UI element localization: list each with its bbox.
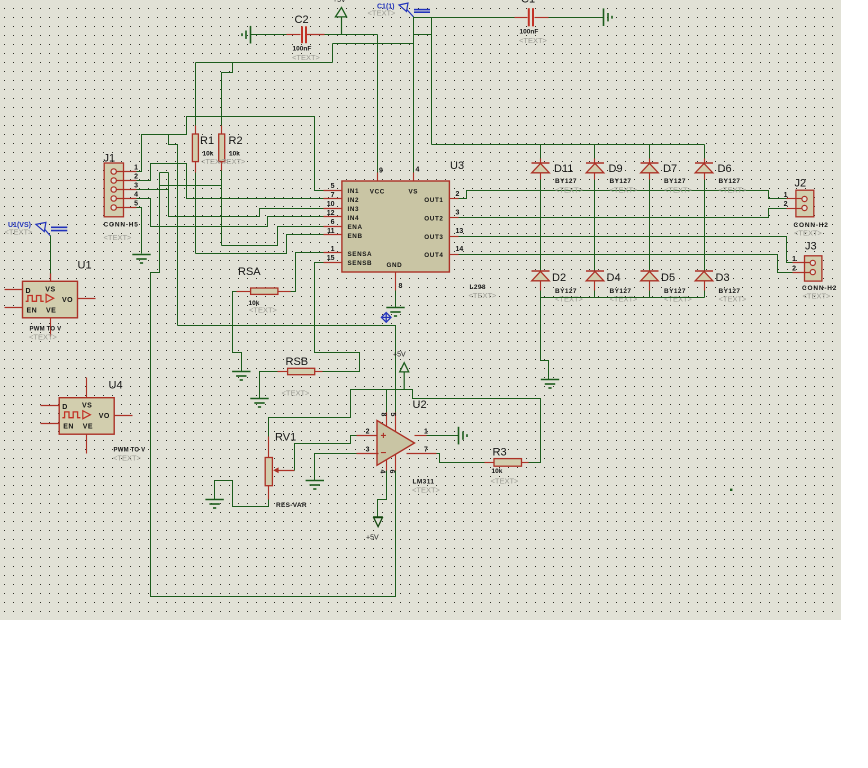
wire OUT1 to J2 pin1 xyxy=(459,191,787,199)
voltage probe U1(VS) xyxy=(36,222,67,236)
svg-text:2: 2 xyxy=(456,191,460,198)
wire R1 to U3 ENB xyxy=(196,235,324,254)
svg-text:R3: R3 xyxy=(493,447,507,459)
resistor RSB xyxy=(288,368,315,374)
svg-text:OUT3: OUT3 xyxy=(424,234,443,241)
junction dot xyxy=(730,489,732,491)
svg-text:4: 4 xyxy=(379,470,386,474)
svg-text:12: 12 xyxy=(327,210,335,217)
ground (U3 pin8) xyxy=(386,308,404,317)
connector J3 CONN-H2 xyxy=(805,256,822,281)
svg-text:EN: EN xyxy=(27,307,38,314)
wire VS probe riser to U3 pin 4 xyxy=(413,17,415,173)
wire U2 pin1 to ground xyxy=(427,435,459,437)
wire stub xyxy=(160,172,169,174)
wire xyxy=(649,291,651,298)
wire probe to U1 VS xyxy=(50,236,52,274)
svg-text:<TEXT>: <TEXT> xyxy=(218,157,247,166)
svg-text:5: 5 xyxy=(389,413,396,417)
wire R1 bottom drop xyxy=(195,173,197,254)
diode D3 BY127 xyxy=(695,270,713,272)
diode D2 BY127 xyxy=(532,270,550,272)
svg-text:J1: J1 xyxy=(104,153,116,165)
svg-text:LM311: LM311 xyxy=(413,479,435,486)
diode D4 BY127 xyxy=(586,270,604,272)
potentiometer RV1 RES-VAR xyxy=(268,437,270,458)
resistor RSA xyxy=(251,288,278,294)
svg-text:3: 3 xyxy=(134,183,138,190)
svg-text:<TEXT>: <TEXT> xyxy=(610,295,639,304)
svg-text:15: 15 xyxy=(327,255,335,262)
wire to U2 pin 8 xyxy=(386,390,388,413)
wire SENSA to RSA xyxy=(291,253,324,292)
svg-text:<TEXT>: <TEXT> xyxy=(368,9,397,18)
wire stub riser xyxy=(168,173,170,190)
svg-text:13: 13 xyxy=(456,228,464,235)
voltage probe C1(1) xyxy=(399,3,430,17)
wire RSB to ground xyxy=(260,372,278,399)
wire xyxy=(540,291,542,298)
svg-text:1: 1 xyxy=(784,192,788,199)
svg-text:VS: VS xyxy=(82,403,92,410)
ground (U2 pin1) xyxy=(459,427,468,445)
wire U2 pin3 to ground xyxy=(315,454,357,481)
svg-text:3: 3 xyxy=(366,447,370,454)
wire to U2 pin 5 xyxy=(178,326,396,413)
svg-text:BY127: BY127 xyxy=(719,178,741,185)
svg-text:6: 6 xyxy=(388,470,395,474)
wire U3 GND xyxy=(395,291,397,308)
svg-text:L298: L298 xyxy=(470,284,486,291)
ground (J1 pin5) xyxy=(132,255,150,264)
svg-text:4: 4 xyxy=(416,167,420,174)
wire xyxy=(649,145,651,159)
svg-text:9: 9 xyxy=(379,168,383,175)
svg-text:+5V: +5V xyxy=(393,352,406,359)
wire C2 to VCC pin 9 xyxy=(325,34,378,36)
wire R2 bottom drop xyxy=(221,171,223,246)
wire OUT3 to J3 pin1 xyxy=(459,237,793,263)
ground (left of C2) xyxy=(242,26,251,44)
svg-text:U4: U4 xyxy=(109,380,123,392)
wire feedback net to RV1 xyxy=(269,390,541,463)
svg-text:+5V: +5V xyxy=(366,535,379,542)
svg-text:<TEXT>: <TEXT> xyxy=(719,186,748,195)
svg-text:100nF: 100nF xyxy=(293,46,312,53)
wire J1 pin1 to U3 IN1 xyxy=(137,117,324,191)
wire J1 pin4 to U3 IN4 xyxy=(137,199,324,227)
svg-text:2: 2 xyxy=(792,266,796,273)
svg-text:+5V: +5V xyxy=(333,0,346,4)
svg-text:7: 7 xyxy=(331,192,335,199)
power flag +5V (top) xyxy=(341,17,343,35)
svg-text:BY127: BY127 xyxy=(555,178,577,185)
wire diode top rail xyxy=(432,144,705,146)
connector J2 CONN-H2 xyxy=(796,190,814,217)
svg-text:11: 11 xyxy=(327,228,335,235)
svg-text:D: D xyxy=(62,404,67,411)
svg-text:ENA: ENA xyxy=(348,224,363,231)
svg-text:SENSB: SENSB xyxy=(348,260,373,267)
svg-text:J2: J2 xyxy=(795,178,807,190)
svg-text:OUT4: OUT4 xyxy=(424,252,443,259)
svg-text:VS: VS xyxy=(45,286,55,293)
wire RV1 bottom to ground xyxy=(215,481,269,507)
op-amp U2 LM311 xyxy=(377,421,415,466)
svg-text:U2: U2 xyxy=(413,399,427,411)
ground (RSA) xyxy=(232,372,250,381)
svg-text:<TEXT>: <TEXT> xyxy=(555,186,584,195)
wire diode column xyxy=(594,180,596,271)
svg-text:CONN-H5: CONN-H5 xyxy=(104,222,139,229)
wire branch to U2 pin5 net xyxy=(169,135,178,326)
wire diode bottom rail xyxy=(541,297,705,299)
svg-text:IN2: IN2 xyxy=(348,197,360,204)
svg-text:C2: C2 xyxy=(295,14,309,26)
wire VCC riser to U3 pin 9 xyxy=(377,35,379,173)
wire xyxy=(332,44,334,63)
svg-text:<TEXT>: <TEXT> xyxy=(664,186,693,195)
svg-text:6: 6 xyxy=(331,219,335,226)
svg-text:VE: VE xyxy=(46,307,56,314)
svg-text:8: 8 xyxy=(380,413,387,417)
wire diode column xyxy=(540,180,542,271)
svg-text:EN: EN xyxy=(63,424,74,431)
IC U1 PWM TO V xyxy=(23,281,78,318)
wire R1 top xyxy=(195,63,197,126)
ground (U2 pin3) xyxy=(306,481,324,490)
svg-text:1: 1 xyxy=(331,246,335,253)
svg-text:<TEXT>: <TEXT> xyxy=(491,477,520,486)
svg-text:100nF: 100nF xyxy=(520,29,539,36)
wire VCC net to C2 xyxy=(251,34,287,36)
wire RSA to ground xyxy=(233,292,242,372)
IC U4 PWM TO V xyxy=(59,398,114,435)
wire diode column xyxy=(704,180,706,271)
origin marker (blue diamond) xyxy=(381,313,391,323)
svg-text:D2: D2 xyxy=(552,272,566,284)
svg-text:−: − xyxy=(381,448,387,459)
wire OUT4 to J3 pin2 xyxy=(459,255,793,273)
wire xyxy=(594,291,596,298)
svg-text:RV1: RV1 xyxy=(275,432,296,444)
svg-text:2: 2 xyxy=(134,174,138,181)
wire VS jog xyxy=(414,34,432,36)
svg-text:+: + xyxy=(381,431,387,442)
svg-text:BY127: BY127 xyxy=(610,178,632,185)
wire SENSB to RSB xyxy=(315,263,360,372)
ground (right of C1) xyxy=(604,8,613,26)
svg-text:U3: U3 xyxy=(450,160,464,172)
svg-text:1: 1 xyxy=(134,165,138,172)
wire U2 pin7 to R3 xyxy=(437,454,485,463)
svg-text:VCC: VCC xyxy=(370,189,385,196)
svg-text:<TEXT>: <TEXT> xyxy=(282,389,311,398)
svg-text:<TEXT>: <TEXT> xyxy=(249,306,278,315)
svg-text:SENSA: SENSA xyxy=(348,251,373,258)
ground (RV1) xyxy=(205,500,223,509)
svg-text:D: D xyxy=(26,288,31,295)
svg-text:GND: GND xyxy=(387,262,403,269)
wire RV1 wiper to U2 pin2 xyxy=(295,436,357,471)
capacitor C2 xyxy=(287,34,301,36)
svg-text:BY127: BY127 xyxy=(664,178,686,185)
svg-text:D11: D11 xyxy=(554,163,573,175)
ground (RSB) xyxy=(250,399,268,408)
svg-text:ENB: ENB xyxy=(348,233,363,240)
wire xyxy=(594,145,596,159)
wire rail to ground xyxy=(541,298,549,380)
svg-text:VE: VE xyxy=(83,424,93,431)
diode D5 BY127 xyxy=(641,270,659,272)
svg-text:8: 8 xyxy=(399,283,403,290)
resistor R3 xyxy=(485,462,495,464)
IC U3 L298 xyxy=(342,181,450,272)
svg-text:VO: VO xyxy=(99,413,110,420)
svg-text:C1: C1 xyxy=(521,0,535,6)
svg-text:RES-VAR: RES-VAR xyxy=(276,502,307,509)
svg-text:10k: 10k xyxy=(492,468,503,475)
svg-text:VO: VO xyxy=(62,297,73,304)
svg-text:J3: J3 xyxy=(805,241,817,253)
svg-text:VS: VS xyxy=(409,189,419,196)
svg-text:<TEXT>: <TEXT> xyxy=(803,292,832,301)
svg-text:7: 7 xyxy=(424,447,428,454)
wire R2 to long net xyxy=(160,185,222,187)
svg-text:2: 2 xyxy=(784,201,788,208)
wire long net to U2 pin 6 xyxy=(151,173,396,597)
svg-text:1: 1 xyxy=(792,256,796,263)
svg-text:<TEXT>: <TEXT> xyxy=(113,454,142,463)
svg-text:R1: R1 xyxy=(200,135,214,147)
svg-text:<TEXT>: <TEXT> xyxy=(719,295,748,304)
power flag +5V (down arrow) xyxy=(373,517,383,527)
svg-text:10: 10 xyxy=(327,201,335,208)
svg-text:D7: D7 xyxy=(663,163,677,175)
svg-text:5: 5 xyxy=(134,201,138,208)
svg-text:<TEXT>: <TEXT> xyxy=(555,295,584,304)
svg-text:R2: R2 xyxy=(229,135,243,147)
svg-text:<TEXT>: <TEXT> xyxy=(664,295,693,304)
wire xyxy=(540,145,542,159)
svg-text:3: 3 xyxy=(456,210,460,217)
wire xyxy=(704,291,706,298)
svg-text:1: 1 xyxy=(424,429,428,436)
wire R2 to U3 ENA xyxy=(222,227,324,246)
svg-text:IN4: IN4 xyxy=(348,215,360,222)
svg-text:RSB: RSB xyxy=(286,356,309,368)
svg-text:IN1: IN1 xyxy=(348,188,360,195)
svg-text:<TEXT>: <TEXT> xyxy=(519,36,548,45)
svg-text:<TEXT>: <TEXT> xyxy=(610,186,639,195)
wire VS drop to diode rail xyxy=(431,18,433,145)
wire R2 top jog xyxy=(222,63,233,126)
wire xyxy=(704,145,706,159)
svg-text:<TEXT>: <TEXT> xyxy=(104,233,133,242)
svg-text:U1: U1 xyxy=(78,260,92,272)
svg-text:<TEXT>: <TEXT> xyxy=(5,228,34,237)
wire J1 pin2 to U3 IN2 xyxy=(137,164,324,199)
connector J1 CONN-H5 xyxy=(104,163,123,217)
svg-text:<TEXT>: <TEXT> xyxy=(469,291,498,300)
wire diode column xyxy=(649,180,651,271)
svg-text:2: 2 xyxy=(366,429,370,436)
wire C1 to ground xyxy=(549,17,604,19)
wire VS net to C1 xyxy=(414,17,515,19)
svg-text:<TEXT>: <TEXT> xyxy=(29,333,58,342)
ground (diode rail) xyxy=(541,380,559,389)
svg-text:4: 4 xyxy=(134,192,138,199)
power flag +5V (U2) xyxy=(403,372,405,390)
wire OUT2 to J2 pin2 xyxy=(459,209,787,218)
wire VS to R1/R2 tops xyxy=(196,62,333,64)
svg-text:D5: D5 xyxy=(661,272,675,284)
svg-text:5: 5 xyxy=(331,183,335,190)
svg-text:<TEXT>: <TEXT> xyxy=(292,53,321,62)
svg-text:<TEXT>: <TEXT> xyxy=(412,486,441,495)
wire J1 pin5 to ground xyxy=(137,208,142,254)
svg-text:D3: D3 xyxy=(716,272,730,284)
svg-text:14: 14 xyxy=(456,246,464,253)
svg-text:IN3: IN3 xyxy=(348,206,360,213)
svg-text:OUT2: OUT2 xyxy=(424,215,443,222)
svg-text:D6: D6 xyxy=(718,163,732,175)
svg-text:RSA: RSA xyxy=(238,266,261,278)
wire U2 pin4 to -supply flag xyxy=(378,471,387,517)
wire J1 pin3 to U3 IN3 xyxy=(137,190,324,217)
svg-text:<TEXT>: <TEXT> xyxy=(794,229,823,238)
svg-text:D4: D4 xyxy=(607,272,621,284)
wire xyxy=(333,43,414,45)
capacitor C1 xyxy=(515,17,528,19)
svg-text:D9: D9 xyxy=(609,163,623,175)
svg-text:OUT1: OUT1 xyxy=(424,197,443,204)
